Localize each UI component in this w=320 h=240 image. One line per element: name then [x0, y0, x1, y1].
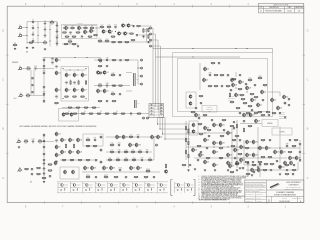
svg-text:Q27: Q27: [58, 147, 61, 149]
svg-text:Q54: Q54: [280, 108, 283, 110]
svg-text:2.2K: 2.2K: [262, 141, 265, 143]
svg-text:330: 330: [111, 153, 113, 155]
resistor R34: [70, 80, 71, 85]
resistor R143: [285, 164, 290, 167]
resistor R97: [258, 112, 263, 115]
svg-text:Q79: Q79: [249, 142, 252, 144]
resistor R78: [124, 150, 129, 155]
junction dot: [37, 27, 38, 28]
transistor Q65: [219, 140, 225, 145]
svg-text:.001: .001: [130, 114, 133, 116]
svg-text:C6: C6: [44, 27, 46, 29]
svg-text:1K: 1K: [130, 138, 132, 140]
junction dot: [43, 141, 44, 142]
svg-text:C59: C59: [209, 73, 212, 75]
svg-text:15K: 15K: [249, 81, 251, 83]
svg-text:2.2K: 2.2K: [87, 147, 90, 149]
svg-text:OUTPUT: OUTPUT: [279, 132, 285, 134]
transistor Q81: [259, 145, 265, 150]
output transistor Q111 cell: [120, 182, 130, 194]
capacitor C83: [232, 121, 235, 125]
resistor R119: [206, 157, 211, 160]
transistor Q15: [73, 72, 79, 77]
junction dot: [192, 56, 193, 57]
junction dot: [115, 31, 116, 32]
svg-text:.001: .001: [198, 119, 201, 121]
resistor R42: [84, 107, 89, 110]
svg-text:5.6K: 5.6K: [119, 43, 122, 45]
wire: [43, 5, 45, 8]
wire: [303, 103, 306, 105]
terminal: [100, 72, 102, 74]
svg-text:Q106: Q106: [58, 183, 61, 185]
transistor Q27: [55, 144, 61, 149]
wire: [64, 25, 97, 27]
transistor Q44: [189, 94, 192, 99]
capacitor C28: [42, 100, 45, 104]
svg-text:5.6K: 5.6K: [49, 171, 52, 173]
junction dot: [257, 147, 258, 148]
svg-text:50V: 50V: [137, 79, 139, 81]
resistor R168: [270, 163, 275, 166]
input jack J3: [18, 66, 23, 70]
wire: [6, 103, 9, 105]
svg-text:47K: 47K: [85, 108, 87, 110]
wire: [141, 25, 152, 27]
svg-text:Q114: Q114: [158, 183, 161, 185]
svg-text:Q7: Q7: [121, 33, 123, 35]
ground: [32, 47, 34, 49]
svg-text:100K: 100K: [265, 165, 268, 167]
wire: [272, 49, 274, 53]
svg-text:J4: J4: [20, 93, 22, 95]
resistor R147: [258, 161, 263, 164]
svg-text:.001: .001: [147, 43, 150, 45]
capacitor C19: [34, 66, 37, 72]
resistor R148: [294, 139, 299, 142]
svg-text:Q4: Q4: [93, 31, 95, 33]
resistor R45: [112, 60, 117, 63]
transistor Q93: [91, 165, 97, 170]
svg-text:R31: R31: [27, 66, 30, 68]
wire: [146, 28, 148, 42]
svg-text:100: 100: [118, 153, 120, 155]
transistor Q43: [231, 77, 237, 82]
svg-text:2.2K: 2.2K: [231, 173, 234, 175]
resistor R13: [93, 35, 98, 38]
svg-text:Q93: Q93: [94, 168, 97, 170]
svg-text:100K: 100K: [73, 37, 76, 39]
svg-text:22K: 22K: [112, 95, 114, 97]
svg-text:220P: 220P: [95, 161, 98, 163]
junction dot: [293, 157, 294, 158]
svg-text:47K: 47K: [183, 166, 185, 168]
capacitor C70: [244, 83, 247, 87]
ground: [14, 48, 16, 50]
resistor R57: [81, 113, 86, 116]
capacitor C73: [194, 107, 197, 111]
svg-text:Q12: Q12: [58, 73, 61, 75]
wire: [56, 22, 58, 47]
capacitor C90: [298, 143, 301, 147]
transistor Q17: [65, 87, 71, 92]
svg-text:R18: R18: [108, 25, 111, 27]
resistor R160: [144, 176, 149, 179]
resistor R106: [241, 99, 246, 102]
wire: [137, 60, 139, 84]
transistor Q4: [90, 28, 95, 33]
junction dot: [26, 35, 27, 36]
resistor R33: [54, 103, 59, 106]
resistor R55: [65, 113, 70, 116]
svg-text:Q100: Q100: [239, 163, 243, 165]
svg-text:5.6K: 5.6K: [117, 161, 120, 163]
capacitor C24: [42, 65, 45, 69]
svg-text:C11: C11: [56, 41, 59, 43]
svg-text:15K: 15K: [113, 43, 115, 45]
svg-text:Q111: Q111: [120, 183, 123, 185]
svg-text:Q60: Q60: [216, 125, 219, 127]
capacitor C67: [278, 112, 281, 116]
svg-text:Q73: Q73: [216, 165, 219, 167]
resistor R50: [112, 85, 117, 88]
ground: [284, 116, 286, 118]
wire: [229, 5, 231, 8]
svg-text:Q38: Q38: [138, 145, 141, 147]
svg-text:Q26: Q26: [58, 134, 61, 136]
transistor Q92: [84, 165, 90, 170]
svg-text:5.6K: 5.6K: [253, 166, 256, 168]
ground: [44, 48, 46, 50]
transistor Q68: [213, 149, 219, 154]
transistor Q73: [213, 162, 219, 167]
svg-text:47K: 47K: [221, 137, 223, 139]
capacitor C94: [288, 139, 291, 143]
resistor R149: [24, 168, 29, 171]
resistor R75: [129, 135, 134, 140]
output transistor Q107 cell: [70, 182, 80, 194]
svg-text:R E V I S I O N S: R E V I S I O N S: [274, 5, 289, 7]
junction dot: [77, 69, 78, 70]
capacitor C42: [129, 113, 132, 117]
transistor Q66: [192, 147, 198, 152]
svg-text:R49: R49: [99, 83, 102, 85]
resistor R3: [13, 43, 18, 48]
svg-text:C51: C51: [94, 138, 97, 140]
junction dot: [71, 159, 72, 160]
resistor R127: [198, 124, 203, 127]
wire: [152, 46, 154, 49]
junction dot: [235, 87, 236, 88]
drawing border frame: [7, 6, 304, 202]
svg-text:Q51: Q51: [260, 105, 263, 107]
svg-text:22K: 22K: [221, 76, 223, 78]
svg-text:15K: 15K: [109, 161, 111, 163]
svg-text:Q33: Q33: [72, 152, 75, 154]
svg-text:.047: .047: [292, 175, 295, 177]
transistor Q26: [55, 131, 61, 136]
svg-text:2.2K: 2.2K: [66, 114, 69, 116]
junction dot: [106, 59, 107, 60]
resistor R58: [89, 113, 94, 116]
terminal: [150, 39, 152, 41]
coupling element (vertical bars): [134, 73, 139, 86]
wire: [155, 5, 157, 8]
capacitor C66: [229, 89, 232, 93]
module box: limiter: [60, 167, 79, 179]
svg-text:.047: .047: [31, 175, 34, 177]
resistor R151: [36, 173, 41, 176]
svg-text:R20: R20: [106, 39, 109, 41]
ground: [279, 166, 281, 168]
transistor Q71: [240, 144, 246, 149]
svg-text:330: 330: [39, 142, 41, 144]
svg-text:4.7K: 4.7K: [79, 161, 82, 163]
wire: [297, 162, 299, 170]
resistor R53: [98, 101, 103, 104]
resistor R37: [64, 96, 69, 99]
capacitor C36: [119, 59, 122, 63]
capacitor C86: [242, 120, 245, 124]
svg-text:2.2K: 2.2K: [227, 87, 230, 89]
resistor R61: [113, 113, 118, 116]
svg-text:R6: R6: [85, 26, 87, 28]
resistor R74: [86, 159, 91, 162]
svg-text:UNLESS OTHERWISE SPECIFIED: UNLESS OTHERWISE SPECIFIED: [245, 181, 265, 183]
wire: [192, 5, 194, 8]
svg-text:C3: C3: [32, 32, 34, 34]
junction dot: [117, 159, 118, 160]
transistor Q2: [78, 25, 83, 30]
capacitor C49: [55, 140, 58, 144]
resistor R88: [220, 75, 225, 78]
transistor Q49: [246, 85, 252, 90]
svg-text:C: C: [307, 78, 309, 82]
svg-text:Q112: Q112: [133, 183, 136, 185]
svg-text:4.7K: 4.7K: [65, 97, 68, 99]
resistor R166: [252, 164, 257, 167]
resistor R48: [111, 73, 116, 78]
capacitor C69: [287, 104, 290, 108]
resistor R47: [98, 66, 103, 69]
resistor R125: [185, 138, 186, 143]
wire: [43, 162, 45, 180]
svg-text:Q: Q: [74, 71, 75, 73]
capacitor C52: [94, 159, 97, 163]
transistor Q76: [243, 112, 249, 117]
capacitor C60: [226, 74, 229, 78]
wire: [156, 56, 241, 58]
svg-text:10K: 10K: [220, 159, 222, 161]
capacitor C71: [261, 99, 264, 103]
svg-text:2.2K: 2.2K: [27, 69, 30, 71]
resistor R28: [143, 28, 148, 33]
resistor R94: [240, 95, 245, 98]
resistor R54: [112, 101, 117, 104]
wire: [62, 43, 78, 45]
capacitor C87: [268, 139, 271, 143]
svg-text:Q: Q: [74, 86, 75, 88]
resistor R85: [148, 158, 153, 163]
wire: [42, 141, 54, 143]
transistor Q98: [165, 169, 168, 174]
svg-text:C5: C5: [44, 21, 46, 23]
transistor Q1: [65, 25, 70, 30]
capacitor C65: [238, 74, 241, 78]
resistor R80: [138, 150, 143, 155]
junction dot: [157, 123, 158, 124]
ground: [214, 169, 216, 171]
wire: [139, 34, 147, 36]
junction dot: [162, 133, 163, 134]
transistor Q9: [122, 23, 127, 28]
ground: [26, 47, 28, 49]
resistor R114: [220, 135, 225, 138]
terminal: [141, 83, 143, 85]
transistor Q61: [219, 122, 225, 127]
svg-text:Q18: Q18: [76, 90, 79, 92]
resistor R163: [230, 171, 235, 174]
svg-text:10-2-81: 10-2-81: [287, 10, 292, 12]
resistor R70: [74, 144, 75, 149]
capacitor C92: [298, 159, 301, 163]
svg-text:220P: 220P: [247, 164, 250, 166]
resistor R89: [208, 86, 213, 89]
capacitor C96: [30, 173, 33, 177]
transistor Q105: [279, 164, 286, 169]
junction dot: [37, 35, 38, 36]
resistor R21: [111, 42, 116, 45]
svg-text:Q113: Q113: [145, 183, 148, 185]
resistor R140: [261, 156, 266, 159]
resistor R155: [146, 169, 151, 174]
capacitor C63: [253, 84, 256, 88]
junction dot: [124, 41, 125, 42]
resistor R10: [65, 36, 70, 39]
capacitor C97: [42, 163, 45, 167]
resistor R154: [48, 170, 53, 173]
transistor Q96: [130, 165, 136, 170]
junction dot: [227, 146, 228, 147]
junction dot: [220, 157, 221, 158]
resistor R76: [110, 143, 115, 148]
junction dot: [85, 68, 86, 69]
capacitor C7: [43, 33, 46, 39]
wire: [236, 120, 238, 168]
capacitor C76: [238, 139, 241, 143]
ground: [187, 169, 189, 171]
wire: [82, 171, 160, 173]
resistor R15: [64, 44, 69, 47]
resistor R126: [185, 150, 186, 155]
svg-text:R79: R79: [132, 150, 135, 152]
junction dot: [279, 147, 280, 148]
terminal: [150, 45, 152, 47]
resistor R81: [108, 158, 113, 163]
svg-text:4.7K: 4.7K: [286, 175, 289, 177]
wire: [33, 70, 35, 95]
svg-text:2.2K: 2.2K: [233, 141, 236, 143]
resistor R5: [70, 26, 75, 31]
svg-text:R157: R157: [104, 175, 108, 177]
svg-text:R1: R1: [44, 40, 46, 42]
output transistor Q113 cell: [145, 182, 155, 194]
svg-text:2.2K: 2.2K: [37, 175, 40, 177]
transistor Q35: [116, 134, 122, 139]
resistor R138: [266, 112, 271, 115]
wire: [247, 161, 249, 177]
wire: [240, 123, 262, 125]
input jack J1: [18, 25, 23, 29]
wire: [62, 107, 100, 109]
capacitor C18: [147, 41, 150, 45]
resistor R67: [86, 145, 91, 148]
resistor R109: [246, 113, 251, 116]
svg-text:Q34: Q34: [80, 152, 83, 154]
svg-text:LTR: LTR: [260, 7, 262, 9]
wire: [49, 22, 51, 47]
transistor Q21: [103, 70, 109, 75]
svg-text:Q49: Q49: [249, 88, 252, 90]
resistor R51: [118, 85, 123, 88]
module box: tone control: [83, 134, 103, 146]
output transistor Q106 cell: [58, 182, 68, 194]
bracket right: [193, 180, 195, 196]
capacitor C103: [124, 176, 127, 180]
svg-text:80-301201086: 80-301201086: [279, 201, 289, 203]
capacitor C20: [31, 77, 34, 81]
svg-text:C14: C14: [114, 25, 117, 27]
transistor Q24: [62, 112, 65, 117]
capacitor C11: [55, 41, 58, 47]
wire: [266, 201, 268, 204]
svg-text:C39: C39: [106, 83, 109, 85]
wire: [199, 63, 201, 90]
svg-text:.047: .047: [153, 178, 156, 180]
resistor R87: [214, 75, 219, 78]
transistor Q99: [229, 163, 235, 168]
capacitor C10: [55, 35, 58, 41]
resistor R6: [83, 26, 88, 31]
resistor R161: [165, 164, 166, 169]
svg-text:Q72: Q72: [207, 162, 210, 164]
svg-text:R5: R5: [72, 26, 74, 28]
transistor Q18: [73, 87, 79, 92]
capacitor C107: [269, 169, 272, 173]
wire: [26, 22, 28, 45]
junction dot: [137, 67, 138, 68]
transistor Q72: [204, 159, 210, 164]
svg-text:C8: C8: [56, 23, 58, 25]
junction dot: [204, 132, 205, 133]
resistor R11: [72, 36, 77, 39]
resistor R84: [132, 158, 137, 163]
capacitor C8: [55, 23, 58, 29]
capacitor C21: [31, 84, 34, 88]
wire: [80, 5, 82, 8]
capacitor C38: [118, 74, 121, 78]
annotation block: assembly note: [279, 111, 287, 120]
resistor R72: [70, 159, 75, 162]
wire: [118, 5, 120, 8]
svg-text:Q19: Q19: [84, 90, 87, 92]
svg-text:R32: R32: [27, 93, 30, 95]
svg-text:10K: 10K: [71, 161, 73, 163]
capacitor C79: [233, 157, 236, 161]
svg-text:Q29: Q29: [64, 140, 67, 142]
svg-text:5.6K: 5.6K: [242, 100, 245, 102]
input jack J2: [18, 33, 23, 37]
